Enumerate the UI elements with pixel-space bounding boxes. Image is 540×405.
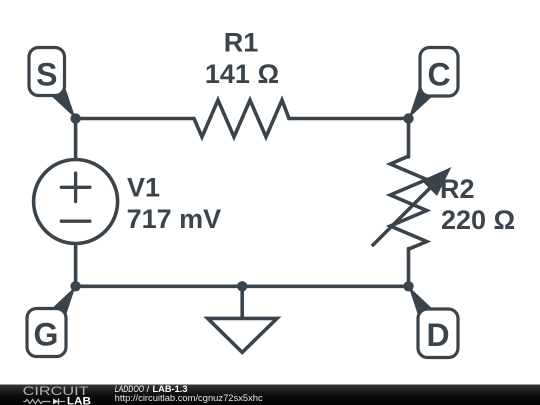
node D flag pointer: [409, 286, 434, 319]
wire bottom rail: [76, 284, 409, 288]
wire right vertical lower (R2 bottom to bottom rail): [407, 249, 411, 287]
junction dot at S: [70, 113, 80, 123]
resistor R1 value 141 Ω: [205, 59, 279, 89]
wire top rail left (node S to R1): [76, 117, 194, 121]
svg-text:R1: R1: [224, 28, 259, 58]
voltage source V1 value 717 mV: [127, 204, 222, 234]
node S flag pointer: [50, 86, 75, 119]
junction dot at G: [70, 281, 80, 291]
junction dot at D: [403, 281, 413, 291]
node D: [418, 309, 458, 358]
footer bar: [0, 385, 540, 405]
junction dot at C: [403, 113, 413, 123]
svg-text:D: D: [426, 317, 449, 353]
resistor R1: [194, 100, 289, 137]
potentiometer R2 label: [440, 174, 475, 204]
svg-text:717 mV: 717 mV: [127, 204, 222, 234]
svg-text:R2: R2: [440, 174, 475, 204]
footer title text LADDOO / LAB-1.3: [115, 384, 188, 394]
svg-text:G: G: [34, 317, 59, 353]
resistor R1 label: [224, 28, 259, 58]
svg-text:V1: V1: [127, 173, 160, 203]
wire left vertical lower (V1 bottom to bottom rail): [74, 244, 78, 287]
junction dot at ground tap: [237, 281, 247, 291]
svg-text:220 Ω: 220 Ω: [441, 205, 515, 235]
node C flag pointer: [409, 86, 434, 119]
ground: [208, 286, 277, 352]
node G: [27, 309, 66, 357]
svg-text:C: C: [427, 57, 450, 93]
CircuitLab logo: [23, 384, 91, 405]
node S: [29, 48, 65, 96]
svg-text:S: S: [36, 57, 57, 93]
voltage source V1 label: [127, 173, 160, 203]
wire top rail right (R1 to node C): [289, 117, 409, 121]
node G flag pointer: [50, 286, 75, 319]
potentiometer R2: [373, 156, 452, 249]
svg-text:http://circuitlab.com/cgnuz72s: http://circuitlab.com/cgnuz72sx5xhc: [115, 393, 264, 403]
footer url text: [115, 393, 264, 403]
svg-text:141 Ω: 141 Ω: [205, 59, 279, 89]
wire right vertical upper (node C junction to R2 top): [407, 119, 411, 158]
svg-text:LAB: LAB: [67, 396, 91, 405]
wire left vertical upper (junction to V1 top): [74, 119, 78, 160]
node C: [420, 48, 458, 97]
voltage source V1: [34, 160, 118, 244]
potentiometer R2 value 220 Ω: [441, 205, 515, 235]
